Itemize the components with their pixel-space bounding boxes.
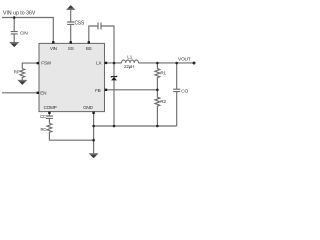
svg-text:RF: RF [14,70,20,75]
ground (GND pin) bar [89,153,98,155]
ground (RF) bar [18,79,27,81]
svg-text:VIN up to 36V: VIN up to 36V [3,11,36,17]
svg-text:CIN: CIN [20,31,28,37]
capacitor C_BS [98,23,101,30]
capacitor CSS [67,22,74,24]
supply triangle CSS [67,5,74,9]
wire GND stem [93,112,95,154]
svg-text:R1: R1 [160,70,166,75]
svg-text:FB: FB [95,88,101,93]
svg-text:BS: BS [86,46,92,51]
wire CO branch [176,63,178,89]
ground triangle CIN [10,43,18,47]
capacitor CIN [11,32,18,43]
ground triangle RF [19,81,27,85]
supply arrow bar above CSS [67,8,75,10]
svg-text:VIN: VIN [50,46,57,51]
capacitor CC [46,116,53,123]
resistor R2 [155,90,160,126]
svg-text:R2: R2 [160,99,166,104]
svg-text:RC: RC [40,127,46,132]
svg-text:L1: L1 [127,55,132,61]
wire CIN branch [13,18,15,32]
capacitor CO [173,89,180,126]
wire CSS branch [70,9,72,43]
wire COMP branch [48,112,50,116]
svg-text:22µH: 22µH [124,64,134,69]
svg-text:CC: CC [40,114,46,119]
wire FB [105,89,158,91]
inductor L1 [122,60,139,63]
svg-text:GND: GND [83,105,93,110]
diode D1 (Schottky) [111,76,117,81]
svg-text:SS: SS [68,46,74,51]
resistor RC [47,123,94,140]
svg-text:FSW: FSW [41,61,51,66]
IC pin labels [40,46,102,110]
IC U1 body [39,43,105,111]
ground (CIN) bar [10,42,19,44]
ground triangle GND [90,155,98,159]
wire diode branch [113,63,115,126]
svg-text:EN: EN [40,90,46,95]
IC pin stubs [37,41,108,114]
wire LX to inductor [105,62,122,64]
resistor RF [20,69,25,81]
wire ground rail bottom [94,125,177,127]
wire FSW branch [22,63,39,68]
wire BS loop [89,26,114,63]
wire inductor to VOUT [139,62,195,64]
wire VIN top rail [2,18,53,44]
svg-text:COMP: COMP [44,105,57,110]
svg-text:CO: CO [181,88,188,94]
svg-text:VOUT: VOUT [178,56,191,62]
resistor R1 [155,63,160,90]
wire EN [2,92,39,94]
svg-text:CSS: CSS [75,20,85,26]
